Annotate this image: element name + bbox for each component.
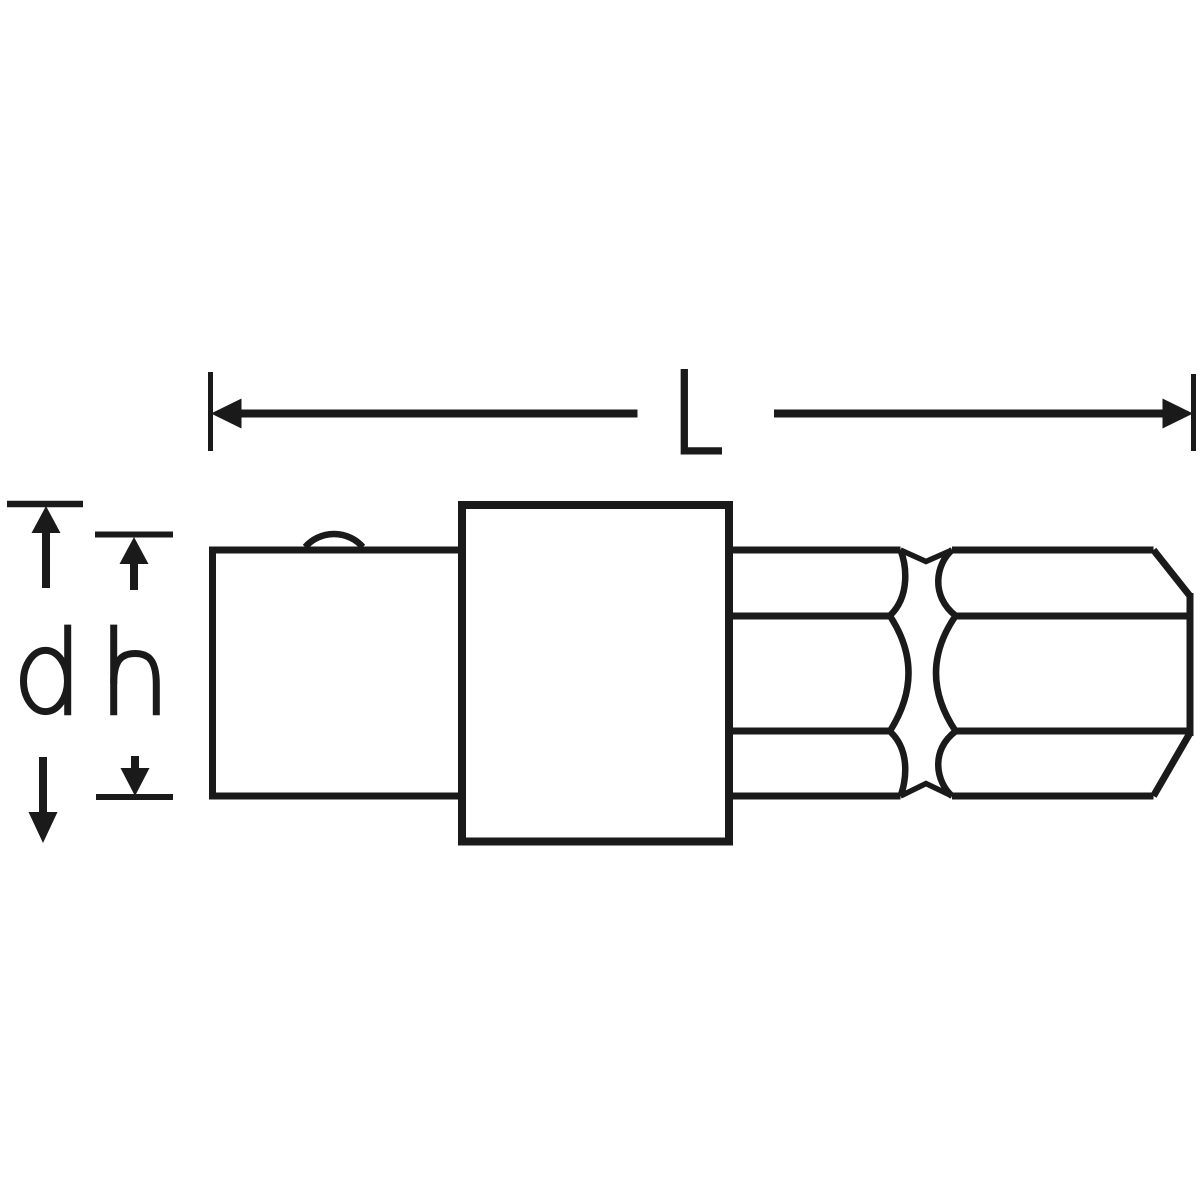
bit tip bottom chamfer <box>1154 733 1191 796</box>
dimension L: right arrowhead <box>1163 399 1194 429</box>
hex facet line lower (left of groove) <box>729 728 890 735</box>
hex facet line upper (left of groove) <box>729 613 890 620</box>
dimension h: label h arch <box>114 654 157 716</box>
dimension L: right horizontal line <box>774 410 1164 418</box>
groove arc band2 right <box>936 616 956 731</box>
hex facet line lower (right of groove) <box>956 728 1190 735</box>
groove arc band3 right <box>938 731 956 796</box>
hex shaft top line (right of groove) <box>952 547 1154 554</box>
dimension h: bottom tick <box>96 794 173 800</box>
groove top V notch <box>901 550 953 562</box>
dimension d: down arrowhead <box>29 812 58 843</box>
bit tip top chamfer <box>1154 550 1191 596</box>
left rectangle left edge emphasis <box>209 547 216 799</box>
dimension d: top tick <box>7 501 83 508</box>
center square block <box>462 505 729 842</box>
dimension h: upper stem <box>130 562 138 590</box>
hex shaft top line (left of groove) <box>729 547 901 554</box>
dimension L: left horizontal line <box>239 410 638 418</box>
dimension h: up arrowhead <box>120 537 149 564</box>
groove arc band1 left <box>890 550 906 616</box>
dimension L: right extension tick <box>1191 374 1196 451</box>
dimension d: label d stem <box>64 625 71 716</box>
detent ball bump <box>305 534 363 547</box>
dimension h: lower stem <box>131 756 139 769</box>
groove bottom notch <box>901 784 953 797</box>
dimension d: lower stem <box>39 757 47 812</box>
groove arc band1 right <box>938 550 956 616</box>
dimension L: left arrowhead <box>211 399 242 429</box>
square drive body (left rectangle) <box>213 550 466 796</box>
hex shaft bottom line (right of groove) <box>952 793 1154 800</box>
dimension d: label d bowl <box>24 650 68 711</box>
dimension L: left extension tick <box>208 372 213 451</box>
groove arc band2 left <box>890 616 909 731</box>
bit tip right edge <box>1187 593 1194 736</box>
dimension d: upper stem <box>42 531 50 588</box>
dimension h: down arrowhead <box>121 768 150 796</box>
hex shaft bottom line (left of groove) <box>729 793 901 800</box>
dimension L: label L <box>684 369 722 451</box>
dimension h: label h left stem <box>110 625 117 716</box>
hex facet line upper (right of groove) <box>956 613 1190 620</box>
dimension d: up arrowhead <box>32 506 61 533</box>
groove arc band3 left <box>890 731 906 796</box>
dimension h: top tick <box>95 532 173 538</box>
